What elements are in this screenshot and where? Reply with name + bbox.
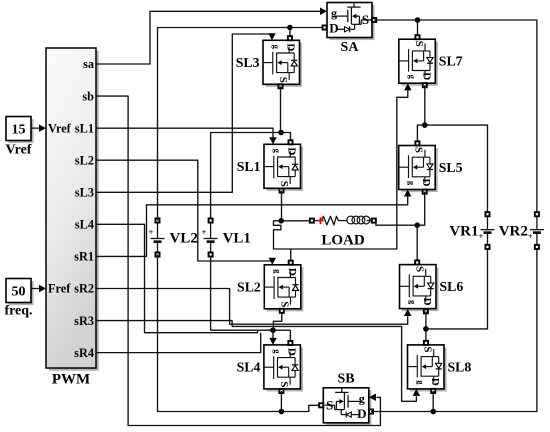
constant block 15 (Vref) <box>6 117 46 158</box>
svg-text:g: g <box>272 349 282 354</box>
wire node to LOAD right <box>375 220 417 225</box>
arrowhead into SL8 gate <box>413 389 421 396</box>
arrowhead into SL5 gate <box>404 190 412 197</box>
svg-text:SL1: SL1 <box>237 159 261 174</box>
mosfet SL1 <box>237 144 303 191</box>
port square SL4 D <box>288 341 292 345</box>
svg-text:SL8: SL8 <box>448 359 472 374</box>
svg-text:S: S <box>413 147 425 153</box>
svg-text:g: g <box>359 391 365 405</box>
svg-text:sR4: sR4 <box>74 346 94 360</box>
port square SL3 S <box>278 84 282 88</box>
wire node to VR1 top <box>425 125 488 212</box>
svg-text:D: D <box>357 406 366 421</box>
svg-text:S: S <box>326 397 333 412</box>
junction dot SA.D/SL3.D <box>287 25 293 31</box>
mosfet SL2 <box>237 265 303 312</box>
svg-text:SL3: SL3 <box>236 55 260 70</box>
svg-text:Vref: Vref <box>6 143 32 158</box>
svg-text:Vref: Vref <box>48 121 72 135</box>
mosfet SL6 <box>400 265 464 312</box>
svg-text:D: D <box>421 298 433 306</box>
mosfet SB <box>323 371 371 425</box>
wire sL3 to SL3 gate <box>96 34 272 192</box>
wire node to VR1 minus <box>426 249 488 329</box>
arrowhead into SL4 gate <box>269 338 277 345</box>
wire SL3 S down <box>280 86 282 132</box>
junction dot SL5.D node <box>414 222 420 228</box>
svg-text:SL7: SL7 <box>439 54 463 69</box>
port square SB D <box>369 409 373 413</box>
svg-text:sR2: sR2 <box>74 282 94 296</box>
junction dot load left node <box>278 218 284 224</box>
mosfet SL4 <box>237 345 303 392</box>
wire sb to SB gate <box>96 96 380 425</box>
mosfet SL5 <box>399 146 463 193</box>
svg-text:D: D <box>329 21 338 36</box>
port square SA D <box>323 25 327 29</box>
wire sa to SA gate <box>96 11 321 64</box>
wire to SL4 D <box>289 330 291 343</box>
svg-text:VR2: VR2 <box>499 224 528 240</box>
arrowhead into SL7 gate <box>404 83 412 90</box>
svg-text:LOAD: LOAD <box>321 233 365 249</box>
svg-text:S: S <box>414 266 426 272</box>
svg-text:SL6: SL6 <box>440 279 464 294</box>
wire sR1 to SL5 gate <box>96 197 408 257</box>
svg-text:D: D <box>420 72 432 80</box>
port square SB S <box>319 403 323 407</box>
svg-text:+: + <box>202 227 207 237</box>
svg-text:VR1: VR1 <box>449 224 478 240</box>
svg-text:VL2: VL2 <box>170 231 198 247</box>
port square SL6 D <box>424 309 428 313</box>
wire SB D line to VR2 minus <box>371 249 537 412</box>
svg-text:sL3: sL3 <box>75 185 94 199</box>
wire down to SL3 D <box>289 28 291 41</box>
wire VL1 minus down <box>211 257 233 331</box>
port square SA S <box>372 18 376 22</box>
port square SL6 S <box>415 260 419 264</box>
PWM controller block <box>46 48 99 388</box>
svg-text:SL2: SL2 <box>237 279 261 294</box>
port square SL7 S <box>415 35 419 39</box>
arrowhead into SL6 gate <box>404 309 412 316</box>
svg-text:15: 15 <box>12 123 26 138</box>
port square SL4 S <box>279 389 283 393</box>
wire into SL4 gate <box>272 330 274 338</box>
wire sL2 to SL2 gate <box>96 160 272 261</box>
svg-text:S: S <box>278 301 290 307</box>
svg-text:sL4: sL4 <box>75 218 94 232</box>
svg-text:50: 50 <box>12 285 26 300</box>
junction dot SL4 S node <box>279 409 285 415</box>
wire SL1 S down to load node <box>281 191 283 221</box>
port square SL2 S <box>280 309 284 313</box>
svg-text:sb: sb <box>82 89 94 103</box>
wire SA S to VR2 plus <box>374 20 537 212</box>
battery VL1 <box>202 218 251 256</box>
wire SL6 D down <box>425 311 427 341</box>
svg-text:sL2: sL2 <box>75 153 94 167</box>
svg-text:g: g <box>273 269 283 274</box>
svg-text:S: S <box>362 12 369 27</box>
svg-text:Fref: Fref <box>48 282 71 296</box>
wire sR4 routing <box>96 333 261 353</box>
wire SL7 D down <box>424 85 426 125</box>
junction dot SA.S/SL7.S <box>415 17 421 23</box>
svg-text:D: D <box>420 179 432 187</box>
junction dot SL4 gate node <box>270 327 276 333</box>
svg-text:D: D <box>285 348 297 356</box>
port square SL5 D <box>423 190 427 194</box>
junction dot SL6.D node <box>423 326 429 332</box>
wire node to VL1 top <box>211 133 281 219</box>
svg-text:sL1: sL1 <box>75 121 94 135</box>
svg-text:S: S <box>278 181 290 187</box>
svg-text:+: + <box>528 231 533 241</box>
wire load node to LOAD left <box>281 220 309 222</box>
arrowhead into SB g <box>369 394 376 402</box>
svg-text:S: S <box>413 41 425 47</box>
svg-text:PWM: PWM <box>52 372 90 388</box>
svg-text:freq.: freq. <box>4 304 32 319</box>
svg-text:+: + <box>148 227 153 237</box>
svg-text:sR1: sR1 <box>74 250 94 264</box>
junction dot SL8.D node <box>430 409 436 415</box>
port square SL1 D <box>288 140 292 144</box>
svg-text:g: g <box>407 75 417 80</box>
wire sR2 to SL6 gate <box>96 288 408 324</box>
wire load node jog to SL2 D and SL7 gate line <box>274 91 408 250</box>
wire node to SL5 S <box>417 125 424 141</box>
svg-text:D: D <box>286 147 298 155</box>
port square SL3 D <box>288 36 292 40</box>
wire node to SL1 D <box>281 133 291 143</box>
wire SL4 S down <box>280 391 282 412</box>
arrowhead into SL2 gate <box>269 258 277 265</box>
wire SL2 source jog <box>273 309 281 330</box>
port square SL5 S <box>415 141 419 145</box>
wire SL8 D down <box>432 391 434 412</box>
wire gate line to SL8 <box>232 326 416 401</box>
constant block 50 (freq.) <box>4 279 46 319</box>
port square SL7 D <box>423 83 427 87</box>
arrowhead into SL1 gate <box>269 137 277 144</box>
battery VL2 <box>148 218 197 256</box>
svg-text:D: D <box>286 268 298 276</box>
svg-text:SB: SB <box>337 371 354 386</box>
wire sR3 routing <box>96 321 232 327</box>
mosfet SA <box>327 3 375 56</box>
svg-text:g: g <box>407 181 417 186</box>
svg-text:sR3: sR3 <box>74 314 94 328</box>
svg-text:SL4: SL4 <box>237 359 261 374</box>
mosfet SL3 <box>236 40 302 87</box>
wire node line above SL4 <box>232 329 290 331</box>
svg-text:S: S <box>278 381 290 387</box>
junction dot SL7.D node <box>422 122 428 128</box>
svg-text:SL5: SL5 <box>439 160 463 175</box>
wire VL2 minus bottom line to SB S <box>158 255 320 412</box>
arrowhead into SL3 gate <box>268 33 276 40</box>
wire SL5 D down <box>417 192 425 226</box>
wire sL1 to SL1 gate <box>96 128 273 137</box>
svg-text:g: g <box>331 6 337 20</box>
wire sL4 routing <box>96 224 258 332</box>
battery VR2 <box>499 212 544 249</box>
arrowhead into SA g <box>320 8 327 16</box>
LOAD series RLC branch <box>310 216 376 248</box>
wire node to SL6 S <box>416 225 418 260</box>
mosfet SL8 <box>408 345 472 392</box>
svg-text:SA: SA <box>341 40 360 55</box>
junction dot SL3.S node <box>278 130 284 136</box>
svg-text:S: S <box>277 77 289 83</box>
svg-text:S: S <box>422 346 434 352</box>
svg-text:VL1: VL1 <box>223 231 251 247</box>
wire down to SL2 D <box>290 249 292 263</box>
port square SL8 S <box>424 341 428 345</box>
svg-text:sa: sa <box>83 57 94 71</box>
mosfet SL7 <box>399 39 463 86</box>
svg-text:+: + <box>478 231 483 241</box>
svg-text:D: D <box>285 43 297 51</box>
port square SL1 S <box>279 188 283 192</box>
wire down to SL7 S <box>417 20 419 37</box>
port square SL2 D <box>289 261 293 265</box>
svg-text:D: D <box>429 378 441 386</box>
battery VR1 <box>449 212 494 249</box>
port square SL8 D <box>431 389 435 393</box>
wire SA drain to VL2 and SL3 drain <box>158 28 323 221</box>
